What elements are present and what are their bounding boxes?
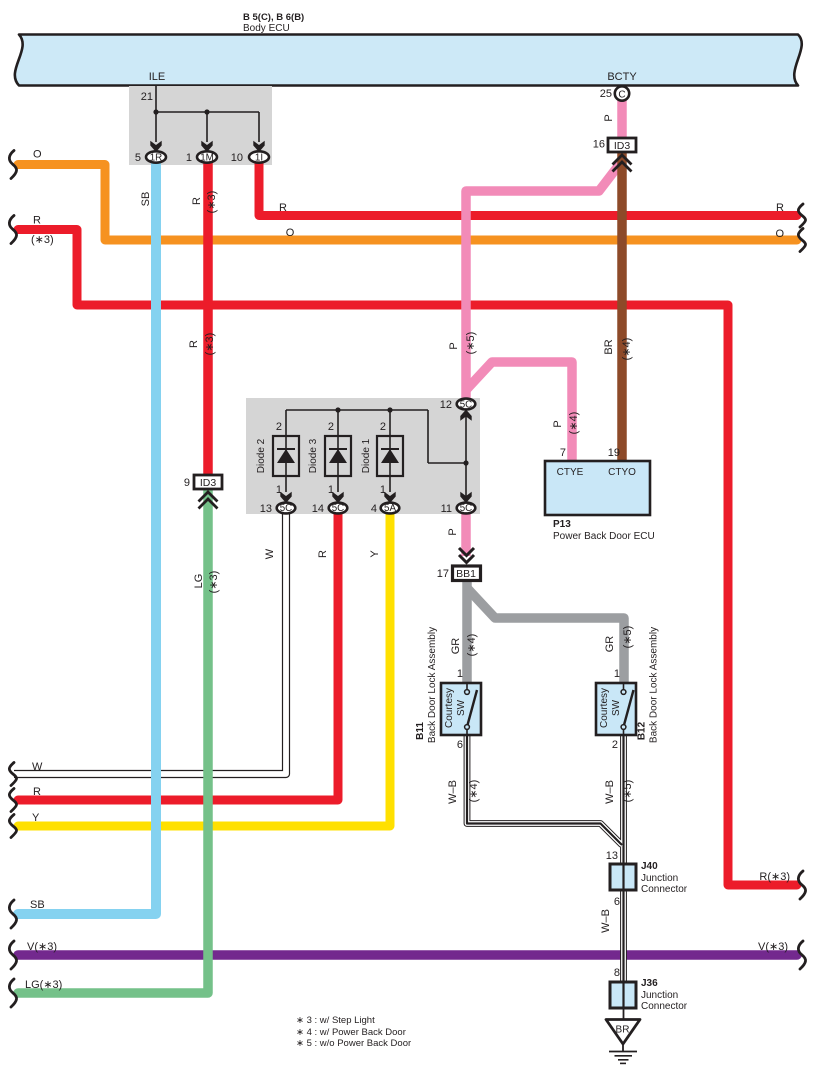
diode D2 box bbox=[273, 436, 299, 476]
svg-text:(∗4): (∗4) bbox=[468, 780, 480, 803]
svg-text:W–B: W–B bbox=[447, 780, 459, 804]
svg-text:12: 12 bbox=[440, 399, 452, 411]
svg-text:ID3: ID3 bbox=[614, 140, 631, 152]
wire to pin 10 (1I) bbox=[258, 112, 260, 142]
svg-text:1: 1 bbox=[328, 484, 334, 496]
wire to pin 1 (1M) bbox=[206, 112, 208, 142]
svg-text:Courtesy: Courtesy bbox=[599, 688, 610, 728]
svg-text:CTYO: CTYO bbox=[608, 467, 636, 478]
svg-text:Junction: Junction bbox=[641, 873, 678, 884]
wire Y (yellow) from 5A pin4 to left edge bbox=[18, 512, 390, 826]
svg-text:11: 11 bbox=[441, 503, 452, 515]
svg-text:V(∗3): V(∗3) bbox=[758, 941, 788, 953]
svg-text:Y: Y bbox=[369, 550, 381, 558]
svg-text:LG: LG bbox=[193, 574, 205, 589]
svg-text:6: 6 bbox=[614, 896, 620, 908]
svg-text:Junction: Junction bbox=[641, 990, 678, 1001]
svg-text:2: 2 bbox=[276, 421, 282, 433]
wire W-B from B11 pin6 merging above J40 bbox=[467, 735, 622, 845]
diode D1 symbol bbox=[381, 449, 399, 463]
oval terminal 1I bbox=[249, 151, 269, 162]
arrow into pin13 oval bbox=[280, 492, 291, 503]
svg-text:5C: 5C bbox=[280, 503, 293, 514]
svg-text:B11: B11 bbox=[415, 722, 426, 740]
svg-text:1: 1 bbox=[186, 152, 192, 164]
connector shield box around diodes bbox=[246, 398, 480, 514]
wire V(*3) purple across page bbox=[18, 950, 797, 960]
arrow into pin14 oval bbox=[332, 492, 343, 503]
junction dot at ILE split mid bbox=[204, 109, 209, 114]
svg-text:GR: GR bbox=[604, 636, 616, 653]
svg-text:2: 2 bbox=[328, 421, 334, 433]
svg-text:BB1: BB1 bbox=[456, 568, 476, 580]
wire P branch to P13 pin 7 bbox=[466, 362, 572, 461]
svg-text:SW: SW bbox=[611, 699, 622, 716]
wire O (orange) from left edge to right edge bbox=[18, 165, 797, 241]
wire GR branch to B12 pin1 bbox=[467, 588, 624, 684]
wire W (white) from pin13 to left edge, outline bbox=[14, 512, 286, 774]
svg-text:5: 5 bbox=[135, 152, 141, 164]
svg-text:R: R bbox=[191, 197, 203, 205]
P13 Power Back Door ECU box bbox=[545, 461, 650, 515]
break R3 left bbox=[9, 216, 16, 244]
svg-text:Y: Y bbox=[32, 812, 40, 824]
chevron above BB1 bbox=[459, 548, 474, 563]
diode D3 symbol bbox=[329, 449, 347, 463]
break Y left bbox=[9, 815, 16, 838]
svg-text:2: 2 bbox=[612, 739, 618, 751]
svg-text:Diode 3: Diode 3 bbox=[308, 438, 319, 473]
svg-text:Connector: Connector bbox=[641, 884, 688, 895]
svg-text:∗ 3 : w/ Step Light: ∗ 3 : w/ Step Light bbox=[296, 1015, 375, 1026]
oval terminal 1R bbox=[146, 151, 166, 162]
svg-text:B12: B12 bbox=[637, 721, 648, 740]
svg-text:(∗4): (∗4) bbox=[568, 412, 580, 435]
break symbols on wire ends bbox=[9, 151, 805, 1008]
svg-text:SB: SB bbox=[30, 899, 45, 911]
svg-text:R: R bbox=[33, 215, 41, 227]
svg-text:P: P bbox=[448, 342, 460, 349]
svg-text:P: P bbox=[603, 114, 615, 121]
svg-text:5C: 5C bbox=[332, 503, 345, 514]
chevron below ID3 pin9 bbox=[199, 492, 218, 509]
connector ID3 (pin 16) box bbox=[608, 138, 636, 152]
svg-text:1R: 1R bbox=[150, 153, 163, 164]
wire R from 1M down to ID3 bbox=[203, 159, 213, 476]
wire P from 5C pin11 down to BB1 bbox=[461, 512, 471, 556]
svg-text:5C: 5C bbox=[460, 400, 473, 411]
svg-text:R: R bbox=[317, 550, 329, 558]
wire R(*3) big red from left edge to right edge R(*3) bbox=[18, 230, 797, 886]
svg-text:P: P bbox=[552, 420, 564, 427]
wire SB (skyblue) from 1R to left edge bbox=[18, 158, 156, 914]
svg-text:(∗3): (∗3) bbox=[206, 191, 218, 214]
svg-text:R: R bbox=[33, 786, 41, 798]
break O right bbox=[798, 229, 805, 252]
wire LG (light green) from ID3 to left edge bbox=[18, 489, 208, 993]
svg-text:5A: 5A bbox=[384, 503, 396, 514]
svg-text:1: 1 bbox=[457, 668, 463, 680]
break SB left bbox=[9, 900, 16, 928]
svg-text:SW: SW bbox=[456, 699, 467, 716]
svg-text:∗ 5 : w/o Power Back Door: ∗ 5 : w/o Power Back Door bbox=[296, 1038, 411, 1049]
oval terminal 5C pin11 bbox=[457, 503, 476, 514]
svg-text:Diode 1: Diode 1 bbox=[361, 438, 372, 473]
ground symbol BR bbox=[606, 1020, 640, 1045]
svg-text:P13: P13 bbox=[553, 519, 571, 530]
svg-text:O: O bbox=[286, 227, 295, 239]
break R right bbox=[798, 204, 805, 227]
wire P (pink) main vertical from 5C pin12 up and over to ID3 bbox=[466, 161, 622, 400]
svg-text:8: 8 bbox=[614, 967, 620, 979]
svg-text:1I: 1I bbox=[255, 153, 263, 164]
diode D2 symbol bbox=[277, 449, 295, 463]
break LG left bbox=[9, 979, 16, 1007]
wire ILE horizontal split bbox=[156, 111, 259, 113]
svg-text:Back Door Lock Assembly: Back Door Lock Assembly bbox=[649, 627, 660, 743]
svg-text:ID3: ID3 bbox=[200, 477, 217, 489]
rotated wire labels bbox=[140, 114, 660, 933]
svg-text:W: W bbox=[264, 548, 276, 559]
svg-text:Diode 2: Diode 2 bbox=[256, 438, 267, 473]
J36 junction connector box bbox=[610, 982, 636, 1008]
svg-text:W–B: W–B bbox=[604, 780, 616, 804]
oval terminal 5C pin13 bbox=[277, 503, 296, 514]
svg-text:(∗4): (∗4) bbox=[466, 634, 478, 657]
wire R from 1I to right edge bbox=[259, 159, 797, 216]
svg-text:BR: BR bbox=[616, 1025, 630, 1036]
svg-text:BCTY: BCTY bbox=[607, 71, 637, 83]
svg-text:(∗5): (∗5) bbox=[465, 332, 477, 355]
svg-text:13: 13 bbox=[260, 503, 272, 515]
oval terminal 5A pin4 bbox=[381, 503, 400, 514]
svg-text:1: 1 bbox=[614, 668, 620, 680]
arrow into 1M bbox=[201, 141, 212, 152]
svg-text:P: P bbox=[447, 528, 459, 535]
svg-text:ILE: ILE bbox=[149, 71, 166, 83]
switch B12 contacts bbox=[623, 683, 625, 690]
svg-text:5C: 5C bbox=[460, 503, 473, 514]
svg-text:J36: J36 bbox=[641, 978, 658, 989]
svg-text:Back Door Lock Assembly: Back Door Lock Assembly bbox=[427, 627, 438, 743]
svg-text:O: O bbox=[775, 228, 784, 240]
connector shield box at ILE bbox=[129, 86, 272, 165]
svg-text:10: 10 bbox=[231, 152, 243, 164]
junction dot at ILE split left bbox=[153, 109, 158, 114]
wire GR (gray) from BB1 to B11 pin1 bbox=[462, 579, 472, 684]
oval terminal 1M bbox=[197, 151, 217, 162]
break O left bbox=[9, 151, 16, 179]
svg-text:16: 16 bbox=[593, 139, 605, 151]
diode D1 box bbox=[377, 436, 403, 476]
break V left bbox=[9, 941, 16, 969]
svg-text:6: 6 bbox=[457, 739, 463, 751]
svg-text:W–B: W–B bbox=[600, 909, 612, 933]
break R3 right bbox=[798, 871, 805, 899]
svg-text:9: 9 bbox=[184, 477, 190, 489]
svg-text:O: O bbox=[33, 149, 42, 161]
break V right bbox=[798, 941, 805, 969]
connector BB1 (pin 17) box bbox=[453, 566, 481, 581]
Body ECU bus (B 5(C), B 6(B)) bbox=[15, 35, 802, 86]
svg-text:21: 21 bbox=[141, 91, 153, 103]
svg-text:J40: J40 bbox=[641, 861, 658, 872]
wire R from diode pin14 to left edge bbox=[18, 512, 338, 800]
svg-text:1: 1 bbox=[380, 484, 386, 496]
svg-text:2: 2 bbox=[380, 421, 386, 433]
oval terminal 5C pin14 bbox=[329, 503, 348, 514]
svg-text:25: 25 bbox=[600, 88, 612, 100]
svg-text:CTYE: CTYE bbox=[557, 467, 584, 478]
svg-text:Power Back Door ECU: Power Back Door ECU bbox=[553, 531, 655, 542]
oval terminal 5C pin12 bbox=[457, 399, 476, 410]
wire BR (brown) from ID3 to P13 pin 19 bbox=[617, 152, 627, 461]
svg-text:(∗5): (∗5) bbox=[622, 626, 634, 649]
svg-text:W: W bbox=[32, 761, 43, 773]
wire to pin 5 (1R) bbox=[155, 112, 157, 142]
svg-text:17: 17 bbox=[437, 568, 449, 580]
chevron below ID3 pin16 bbox=[613, 155, 632, 172]
junction dot node 5C branch bbox=[463, 460, 468, 465]
courtesy switch B11 box bbox=[441, 683, 481, 735]
wire from J36 to ground bbox=[623, 1008, 625, 1020]
courtesy switch B12 box bbox=[596, 683, 636, 735]
svg-text:(∗3): (∗3) bbox=[31, 234, 54, 246]
svg-text:7: 7 bbox=[560, 447, 566, 459]
arrow into 1I bbox=[253, 141, 264, 152]
svg-text:19: 19 bbox=[608, 447, 620, 459]
svg-text:∗ 4 : w/ Power Back Door: ∗ 4 : w/ Power Back Door bbox=[296, 1027, 406, 1038]
svg-text:BR: BR bbox=[603, 339, 615, 354]
svg-text:R: R bbox=[279, 202, 287, 214]
wire W-B from B12 pin2 through J40 and J36 bbox=[620, 735, 627, 1008]
arrow up into pin12 oval bbox=[460, 410, 471, 421]
svg-text:(∗4): (∗4) bbox=[621, 338, 633, 361]
switch B11 contacts bbox=[466, 683, 468, 690]
svg-text:1: 1 bbox=[276, 484, 282, 496]
diode network wiring bbox=[286, 410, 466, 501]
svg-text:(∗3): (∗3) bbox=[204, 333, 216, 356]
svg-text:(∗3): (∗3) bbox=[208, 571, 220, 594]
svg-text:SB: SB bbox=[140, 192, 152, 207]
wire P from circle C pin25 to ID3 bbox=[617, 100, 627, 139]
svg-text:GR: GR bbox=[450, 638, 462, 655]
connector ID3 (pin 9) box bbox=[194, 475, 222, 489]
svg-text:(∗5): (∗5) bbox=[622, 780, 634, 803]
terminal texts bbox=[150, 90, 631, 1036]
junction dot diode3 top bbox=[335, 407, 340, 412]
junction dot diode1 top bbox=[387, 407, 392, 412]
svg-text:14: 14 bbox=[312, 503, 324, 515]
svg-text:13: 13 bbox=[606, 850, 618, 862]
svg-text:Body ECU: Body ECU bbox=[243, 23, 290, 34]
svg-text:C: C bbox=[618, 90, 625, 101]
J40 junction connector box bbox=[610, 864, 636, 890]
break R left bbox=[9, 789, 16, 812]
svg-text:R: R bbox=[776, 202, 784, 214]
svg-text:R(∗3): R(∗3) bbox=[759, 871, 790, 883]
svg-text:R: R bbox=[188, 340, 200, 348]
svg-text:LG(∗3): LG(∗3) bbox=[25, 979, 62, 991]
svg-text:Connector: Connector bbox=[641, 1001, 688, 1012]
svg-text:Courtesy: Courtesy bbox=[444, 688, 455, 728]
svg-text:V(∗3): V(∗3) bbox=[27, 941, 57, 953]
arrow into pin11 oval bbox=[460, 492, 471, 503]
arrow into 1R bbox=[150, 141, 161, 152]
svg-text:4: 4 bbox=[371, 503, 377, 515]
svg-text:1M: 1M bbox=[200, 153, 214, 164]
arrow into pin4 oval bbox=[384, 492, 395, 503]
break W left bbox=[9, 763, 16, 786]
diode D3 box bbox=[325, 436, 351, 476]
wire ILE pin21 vertical bbox=[156, 86, 259, 142]
circle terminal C pin25 bbox=[615, 86, 629, 100]
svg-text:B 5(C), B 6(B): B 5(C), B 6(B) bbox=[243, 12, 304, 23]
